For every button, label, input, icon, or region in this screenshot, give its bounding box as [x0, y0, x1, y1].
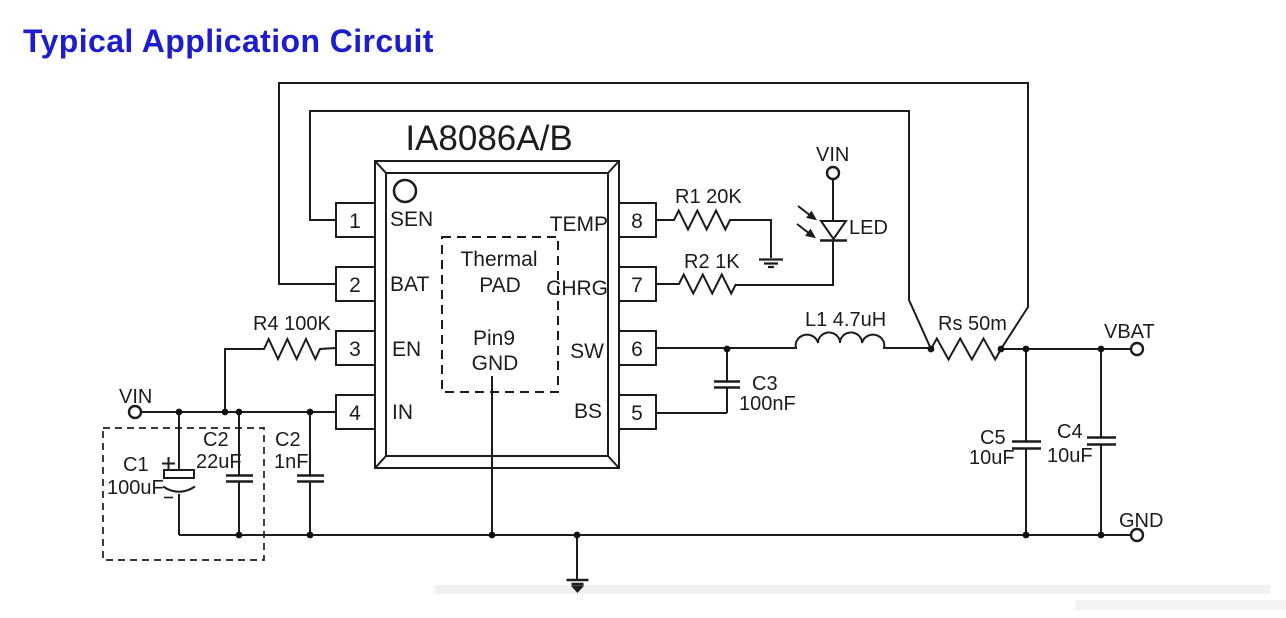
terminal VIN left — [129, 406, 141, 418]
svg-text:6: 6 — [631, 338, 643, 361]
svg-text:SEN: SEN — [390, 208, 433, 231]
thermal pad dashed box — [442, 237, 558, 392]
resistor Rs — [931, 339, 1001, 360]
pin 1 marker circle — [394, 180, 416, 202]
svg-text:100uF: 100uF — [107, 477, 164, 499]
resistor R2 — [656, 275, 736, 294]
value label C2 1nF — [274, 429, 308, 473]
wire outer top loop (BAT to Rs right) — [279, 83, 1028, 349]
svg-text:R4 100K: R4 100K — [253, 313, 331, 335]
value label C3 — [739, 373, 796, 415]
junction dot C1/VIN — [176, 409, 183, 416]
wire ground rail — [179, 534, 1131, 536]
svg-text:R1 20K: R1 20K — [675, 186, 742, 208]
svg-text:BAT: BAT — [390, 273, 429, 296]
junction dot pad GND rail — [489, 532, 496, 539]
junction dot C5 bottom — [1023, 532, 1030, 539]
IC corner miter lines — [375, 161, 619, 468]
wire R2 to LED cathode — [736, 241, 833, 285]
wire Rs to VBAT — [1001, 348, 1131, 350]
svg-text:5: 5 — [631, 402, 643, 425]
capacitor C2 22uF — [226, 412, 253, 535]
svg-text:L1 4.7uH: L1 4.7uH — [805, 309, 886, 331]
svg-text:C1: C1 — [123, 454, 149, 476]
svg-text:LED: LED — [849, 217, 888, 239]
svg-text:100nF: 100nF — [739, 393, 796, 415]
svg-text:Rs 50m: Rs 50m — [938, 313, 1007, 335]
terminal GND — [1131, 529, 1143, 541]
faint scan artifact bottom — [435, 585, 1286, 610]
junction dot Rs left — [928, 346, 935, 353]
ground symbol R1 — [759, 260, 783, 268]
capacitor C2 1nF — [297, 412, 324, 535]
svg-text:1nF: 1nF — [274, 451, 308, 473]
svg-text:C3: C3 — [752, 373, 778, 395]
svg-text:C2: C2 — [203, 429, 229, 451]
wire inner top loop (SEN to Rs left) — [310, 111, 931, 349]
svg-text:10uF: 10uF — [969, 447, 1015, 469]
svg-text:3: 3 — [349, 338, 361, 361]
C1 plus sign — [162, 457, 175, 470]
pin box 8 — [619, 203, 656, 237]
value label C1 — [107, 454, 164, 499]
junction dot C2 1nF top — [307, 409, 314, 416]
capacitor C5 — [1012, 349, 1041, 535]
svg-text:22uF: 22uF — [196, 451, 242, 473]
svg-text:VIN: VIN — [119, 386, 152, 408]
IC inner body — [386, 173, 608, 456]
capacitor C4 — [1087, 349, 1116, 535]
value label C2 22uF — [196, 429, 242, 473]
svg-text:7: 7 — [631, 274, 643, 297]
svg-text:8: 8 — [631, 210, 643, 233]
svg-text:VIN: VIN — [816, 144, 849, 166]
ground symbol bottom — [567, 535, 589, 592]
svg-text:GND: GND — [1119, 510, 1163, 532]
svg-text:PAD: PAD — [479, 274, 521, 297]
svg-text:C2: C2 — [275, 429, 301, 451]
inductor L1 — [796, 333, 885, 349]
svg-text:BS: BS — [574, 400, 602, 423]
junction dot SW/C3 — [724, 346, 731, 353]
junction dot C2 22uF bottom — [236, 532, 243, 539]
dashed box around C1/C2 — [103, 428, 264, 560]
op-amp U1 IC outer body — [375, 161, 619, 468]
resistor R1 — [656, 211, 771, 259]
svg-text:4: 4 — [349, 402, 361, 425]
capacitor C3 — [714, 349, 740, 413]
svg-text:CHRG: CHRG — [546, 277, 608, 300]
svg-text:GND: GND — [472, 352, 519, 375]
pin box 7 — [619, 267, 656, 301]
C1 minus sign — [164, 497, 173, 499]
svg-text:EN: EN — [392, 338, 421, 361]
terminal VBAT — [1131, 343, 1143, 355]
pin box 5 — [619, 395, 656, 429]
wire VIN to pin 4 — [141, 411, 336, 413]
svg-text:VBAT: VBAT — [1104, 321, 1155, 343]
pin box 2 — [336, 267, 375, 301]
junction dot Rs right — [998, 346, 1005, 353]
LED arrows — [797, 206, 816, 238]
wire L1 to Rs — [883, 347, 931, 349]
svg-text:C4: C4 — [1057, 421, 1083, 443]
svg-text:Thermal: Thermal — [460, 248, 537, 271]
svg-text:TEMP: TEMP — [550, 213, 608, 236]
junction dot C4 bottom — [1098, 532, 1105, 539]
pin box 6 — [619, 331, 656, 365]
capacitor C1 (electrolytic) — [163, 412, 195, 535]
svg-text:IN: IN — [392, 401, 413, 424]
junction dot C4 top — [1098, 346, 1105, 353]
svg-text:1: 1 — [349, 210, 361, 233]
terminal VIN top (LED) — [827, 167, 839, 179]
pin box 3 — [336, 331, 375, 365]
thermal pad label — [460, 248, 537, 297]
junction dot C2 1nF bottom — [307, 532, 314, 539]
svg-text:2: 2 — [349, 274, 361, 297]
pin box 1 — [336, 203, 375, 237]
LED D1 — [820, 221, 847, 241]
svg-text:10uF: 10uF — [1047, 445, 1093, 467]
wire C3 to pin 5 — [656, 412, 727, 414]
pad pin9 GND label — [472, 327, 519, 375]
junction dot C5 top — [1023, 346, 1030, 353]
junction dot C2 22uF top — [236, 409, 243, 416]
junction dot ground stub — [574, 532, 581, 539]
wire VIN to LED anode — [832, 179, 834, 221]
pin box 4 — [336, 395, 375, 429]
svg-text:Pin9: Pin9 — [473, 327, 515, 350]
svg-text:C5: C5 — [980, 427, 1006, 449]
wire SW to L1 — [656, 347, 797, 349]
svg-text:Typical Application Circuit: Typical Application Circuit — [23, 23, 434, 59]
value label C5 — [969, 427, 1015, 469]
junction dot R4/VIN — [222, 409, 229, 416]
resistor R4 — [225, 339, 336, 412]
svg-text:R2 1K: R2 1K — [684, 251, 740, 273]
value label C4 — [1047, 421, 1093, 467]
wire thermal pad GND to rail — [491, 376, 493, 535]
svg-text:SW: SW — [570, 340, 604, 363]
svg-text:IA8086A/B: IA8086A/B — [405, 119, 572, 158]
